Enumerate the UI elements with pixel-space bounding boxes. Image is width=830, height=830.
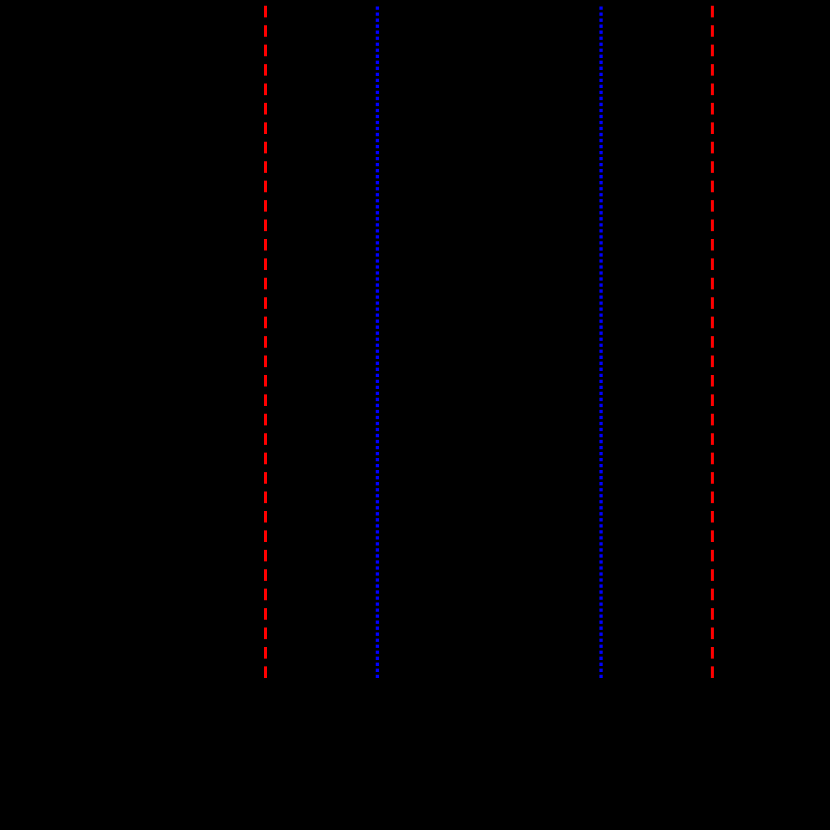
blue dotted vertical line 1 (x=377.4) xyxy=(376,6,379,679)
red dashed vertical line 1 (x=265.5) xyxy=(264,5,267,678)
blue dotted vertical line 2 (x=601.0) xyxy=(599,6,602,679)
red dashed vertical line 2 (x=712.5) xyxy=(711,5,714,678)
